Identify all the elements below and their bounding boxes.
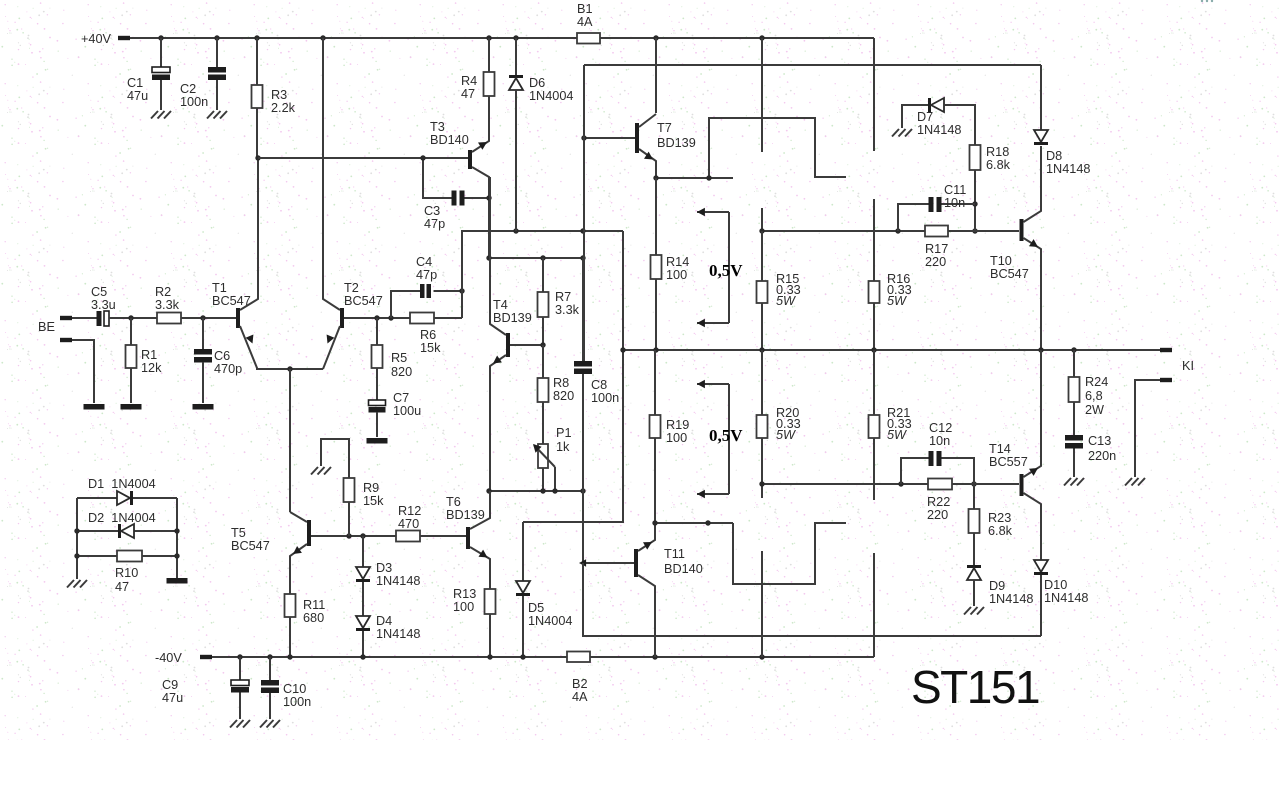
terminal KI return	[1160, 378, 1172, 382]
resistor R20	[757, 415, 768, 438]
svg-text:0,5V: 0,5V	[709, 426, 743, 445]
wire T10 base lead	[948, 230, 1019, 232]
wire R9 bottom lead	[348, 502, 350, 536]
measure arrow upper bottom	[697, 322, 729, 324]
wire x762 to bias bus	[761, 208, 763, 231]
transistor T2 base bar	[340, 308, 344, 328]
wire D7 left hook	[902, 105, 929, 128]
wire C1 top lead	[160, 38, 162, 67]
capacitor C13	[1065, 435, 1083, 441]
svg-text:R9: R9	[363, 481, 379, 495]
wire T1 collector	[240, 158, 258, 310]
resistor R14	[651, 255, 662, 279]
svg-text:BD139: BD139	[493, 311, 532, 325]
wire R2 to T1 base	[181, 317, 236, 319]
wire T1 emitter	[240, 326, 323, 369]
wire R20 top lead	[761, 350, 763, 415]
wire left vertical D1D2R10	[76, 498, 78, 579]
wire x623 vertical to output	[523, 231, 623, 522]
arrow T14 emitter	[1029, 468, 1038, 476]
svg-text:C10: C10	[283, 682, 306, 696]
wire C12 right lead	[942, 458, 975, 484]
wire x762 lower tail	[761, 551, 763, 657]
wire C5 to R2	[109, 317, 157, 319]
wire VAS top rail	[489, 257, 583, 259]
wire T11 base line	[586, 562, 634, 564]
transistor T4 base bar	[506, 333, 510, 357]
svg-text:1N4148: 1N4148	[1046, 162, 1090, 176]
svg-text:D10: D10	[1044, 578, 1067, 592]
resistor R17	[925, 226, 948, 237]
svg-text:5W: 5W	[887, 294, 907, 308]
wire x762 from +rail	[761, 38, 763, 152]
wire T5 emitter	[290, 544, 307, 594]
wire T5 collector	[290, 512, 307, 522]
wire x874 from +rail	[873, 38, 875, 151]
svg-text:1N4148: 1N4148	[989, 592, 1033, 606]
wire inner top rail	[584, 64, 1041, 66]
wire R8 to P1	[542, 402, 544, 444]
wire -40V rail left of fuse B2	[212, 656, 567, 658]
wire x583 lower part	[582, 374, 584, 563]
svg-text:220: 220	[925, 255, 946, 269]
svg-text:1N4148: 1N4148	[917, 123, 961, 137]
junction dots D1D2R10	[74, 528, 79, 533]
wire T3 base line	[258, 157, 468, 159]
svg-text:R1: R1	[141, 348, 157, 362]
svg-text:+40V: +40V	[81, 32, 112, 46]
wire R15 top lead	[761, 231, 763, 281]
capacitor C6	[194, 349, 212, 355]
junction dots T2 base node	[374, 315, 379, 320]
svg-text:T2: T2	[344, 281, 359, 295]
wire C6 top lead	[202, 318, 204, 349]
wire D8 top lead	[1040, 65, 1042, 130]
wire D3 top lead	[362, 536, 364, 567]
svg-text:R12: R12	[398, 504, 421, 518]
svg-text:10n: 10n	[929, 434, 950, 448]
svg-text:R17: R17	[925, 242, 948, 256]
svg-text:10n: 10n	[944, 196, 965, 210]
ground below C1	[151, 111, 158, 119]
wire T6 collector	[470, 491, 490, 529]
wire C2 top lead	[216, 38, 218, 67]
svg-text:BD139: BD139	[657, 136, 696, 150]
transistor T5 base bar	[307, 520, 311, 546]
wire R3 top lead	[256, 38, 258, 85]
svg-text:T4: T4	[493, 298, 508, 312]
svg-text:2W: 2W	[1085, 403, 1104, 417]
svg-text:100: 100	[453, 600, 474, 614]
wire R24 top lead	[1073, 350, 1075, 377]
svg-text:P1: P1	[556, 426, 572, 440]
wire T2 base node	[344, 317, 410, 319]
arrow T5 emitter	[293, 546, 302, 554]
wire R24 to C13	[1073, 402, 1075, 435]
resistor R1	[126, 345, 137, 368]
svg-text:R5: R5	[391, 351, 407, 365]
arrow T1 emitter	[246, 335, 254, 344]
svg-text:6.8k: 6.8k	[986, 158, 1011, 172]
svg-text:R3: R3	[271, 88, 287, 102]
resistor R13	[485, 589, 496, 614]
svg-text:1N4148: 1N4148	[376, 627, 420, 641]
svg-text:47p: 47p	[416, 268, 437, 282]
wire D6 bottom lead	[515, 90, 517, 231]
resistor R24	[1069, 377, 1080, 402]
wire C8 top lead	[582, 258, 584, 361]
resistor R18	[970, 145, 981, 170]
svg-text:-40V: -40V	[155, 651, 182, 665]
svg-text:T14: T14	[989, 442, 1011, 456]
wire diff tail to T5 collector	[289, 369, 291, 512]
svg-text:ST151: ST151	[911, 661, 1039, 713]
resistor R4	[484, 72, 495, 96]
wire R6 right to feedback riser	[434, 317, 462, 319]
wire D7 to R18	[944, 105, 975, 145]
terminal -40V	[200, 655, 212, 659]
wire C10 bottom lead	[269, 693, 271, 719]
ground below C9	[230, 720, 237, 728]
svg-text:5W: 5W	[887, 428, 907, 442]
arrow T6 emitter	[479, 550, 488, 558]
wire C6 bottom lead	[202, 362, 204, 403]
wire upper bias bus y231	[762, 230, 1019, 232]
capacitor C9 (electrolytic)	[231, 680, 249, 686]
transistor T14 base bar	[1020, 474, 1024, 496]
wire R16 bottom lead	[873, 303, 875, 350]
wire upper staircase bus	[709, 118, 846, 178]
svg-text:680: 680	[303, 611, 324, 625]
junction dots VAS bottom rail	[486, 488, 491, 493]
svg-text:R22: R22	[927, 495, 950, 509]
svg-text:R18: R18	[986, 145, 1009, 159]
wire T7 base bus vertical x583	[583, 65, 585, 361]
svg-text:470: 470	[398, 517, 419, 531]
wire R23 to D9	[973, 533, 975, 565]
wire P1 wiper lead	[554, 467, 556, 491]
wire R21 top lead	[873, 350, 875, 415]
svg-text:R19: R19	[666, 418, 689, 432]
resistor R21	[869, 415, 880, 438]
svg-text:D5: D5	[528, 601, 544, 615]
svg-text:D7: D7	[917, 110, 933, 124]
svg-text:D8: D8	[1046, 149, 1062, 163]
junction dots output rail	[620, 347, 625, 352]
wire R21 bottom lead	[873, 438, 875, 500]
wire D2 mid side	[77, 530, 177, 532]
wire R8 top lead	[542, 345, 544, 378]
svg-text:47u: 47u	[127, 89, 148, 103]
resistor R8	[538, 378, 549, 402]
wire C10 top lead	[269, 657, 271, 680]
svg-text:BC557: BC557	[989, 455, 1028, 469]
svg-text:BD140: BD140	[664, 562, 703, 576]
wire T3 collector	[472, 167, 489, 258]
svg-text:47p: 47p	[424, 217, 445, 231]
wire T14 collector	[1024, 493, 1042, 560]
wire T11 emitter	[638, 523, 655, 551]
wire lower staircase bus	[733, 523, 846, 584]
fuse B2	[567, 652, 590, 663]
wire T2 collector	[323, 38, 340, 310]
svg-text:T5: T5	[231, 526, 246, 540]
resistor R7	[538, 292, 549, 317]
svg-text:B2: B2	[572, 677, 588, 691]
svg-text:D1 1N4004: D1 1N4004	[88, 477, 156, 491]
wire T7 base line	[584, 137, 635, 139]
terminal BE signal	[60, 316, 72, 320]
svg-text:BC547: BC547	[231, 539, 270, 553]
diode D1 1N4004	[117, 491, 130, 505]
ground below KI return	[1125, 478, 1132, 486]
wire T14 emitter	[1024, 350, 1042, 477]
wire D5 to -40V rail	[522, 596, 524, 657]
svg-text:R14: R14	[666, 255, 689, 269]
wire D4 bottom lead	[362, 631, 364, 657]
svg-text:5W: 5W	[776, 428, 796, 442]
wire P1 bottom lead	[542, 468, 544, 491]
svg-text:C13: C13	[1088, 434, 1111, 448]
capacitor C1 (electrolytic)	[152, 67, 170, 73]
potentiometer P1 wiper arrow	[534, 445, 555, 467]
junction dot T7 emitter node	[653, 175, 658, 180]
wire T10 collector	[1024, 146, 1042, 222]
svg-text:100n: 100n	[180, 95, 208, 109]
svg-text:1N4004: 1N4004	[528, 614, 572, 628]
junction dots T5 base	[346, 533, 351, 538]
transistor T11 base bar	[634, 549, 638, 577]
wire C11 right lead	[942, 203, 976, 205]
svg-text:T10: T10	[990, 254, 1012, 268]
junction dot R18/C11	[972, 201, 977, 206]
wire lower bias bus y484	[762, 483, 1019, 485]
resistor R5	[372, 345, 383, 368]
wire R19 bottom lead	[654, 438, 656, 523]
junction dots on +40V rail	[158, 35, 163, 40]
wire C2 bottom lead	[216, 80, 218, 110]
svg-text:C3: C3	[424, 204, 440, 218]
svg-text:C5: C5	[91, 285, 107, 299]
svg-text:T11: T11	[664, 547, 685, 561]
arrow T3 emitter	[478, 142, 487, 150]
wire lower driver bus y636	[583, 563, 1041, 636]
wire D6 top lead	[515, 38, 517, 75]
svg-text:820: 820	[553, 389, 574, 403]
svg-text:1N4004: 1N4004	[529, 89, 573, 103]
svg-text:D2 1N4004: D2 1N4004	[88, 511, 156, 525]
svg-text:100u: 100u	[393, 404, 421, 418]
resistor R6	[410, 313, 434, 324]
ground below C7	[367, 438, 388, 444]
wire C3 left riser	[423, 158, 452, 198]
svg-text:R7: R7	[555, 290, 571, 304]
wire R11 bottom lead	[289, 617, 291, 657]
svg-text:R8: R8	[553, 376, 569, 390]
ground below R1	[121, 404, 142, 410]
svg-text:100: 100	[666, 268, 687, 282]
junction dots -40V rail	[237, 654, 242, 659]
measure arrow lower top	[697, 383, 729, 385]
ground below C6	[193, 404, 214, 410]
capacitor C4	[420, 284, 425, 298]
svg-text:R2: R2	[155, 285, 171, 299]
svg-text:820: 820	[391, 365, 412, 379]
wire T2 emitter	[323, 326, 340, 369]
diode D5 1N4004	[516, 581, 530, 593]
junction dots on y231 bus	[513, 228, 518, 233]
svg-text:BC547: BC547	[344, 294, 383, 308]
transistor T1 base bar	[236, 308, 240, 328]
wire T11 collector	[638, 575, 655, 657]
wire R1 top lead	[130, 318, 132, 345]
svg-text:R11: R11	[303, 598, 325, 612]
svg-text:1N4148: 1N4148	[376, 574, 420, 588]
wire R16 top riser	[873, 199, 875, 281]
wire T4 emitter	[490, 355, 506, 491]
ground below C13	[1064, 478, 1071, 486]
potentiometer P1 body	[538, 444, 548, 468]
wire input to C5	[72, 317, 97, 319]
wire T6 emitter	[470, 547, 490, 589]
wire R12 to T6 base	[420, 535, 466, 537]
wire +40V rail right of fuse B1	[600, 37, 874, 39]
junction dot C3 riser	[420, 155, 425, 160]
transistor T6 base bar	[466, 527, 470, 549]
wire VAS bottom rail	[489, 490, 583, 492]
svg-text:T3: T3	[430, 120, 445, 134]
svg-text:C8: C8	[591, 378, 607, 392]
diode D8 1N4148	[1034, 130, 1048, 142]
capacitor C2	[208, 67, 226, 73]
wire right vertical D1D2R10	[176, 498, 178, 578]
wire R4 top lead	[488, 38, 490, 72]
resistor R16	[869, 281, 880, 303]
wire R3 bottom lead	[256, 108, 258, 158]
diode D6 1N4004	[509, 75, 523, 78]
resistor R15	[757, 281, 768, 303]
svg-text:C7: C7	[393, 391, 409, 405]
wire T4 collector	[490, 177, 506, 335]
resistor R23	[969, 509, 980, 533]
svg-text:47u: 47u	[162, 691, 183, 705]
resistor R2	[157, 313, 181, 324]
ground bar below-right of R10 block	[167, 578, 188, 584]
junction dot T7 base	[581, 135, 586, 140]
wire D10 bottom lead	[1040, 575, 1042, 636]
svg-text:BC547: BC547	[990, 267, 1029, 281]
resistor R19	[650, 415, 661, 438]
transistor T7 base bar	[635, 123, 639, 153]
svg-text:5W: 5W	[776, 294, 796, 308]
wire D5 branch	[522, 522, 524, 581]
arrow T11 emitter	[643, 542, 652, 550]
svg-text:KI: KI	[1182, 359, 1194, 373]
svg-text:BD140: BD140	[430, 133, 469, 147]
capacitor C10	[261, 680, 279, 686]
ground below D7	[892, 129, 899, 137]
wire R5 to C7	[376, 368, 378, 400]
arrow into T11 base node	[579, 559, 586, 567]
svg-text:D9: D9	[989, 579, 1005, 593]
svg-text:R24: R24	[1085, 375, 1108, 389]
wire R7 bottom lead	[542, 317, 544, 345]
wire R7 top lead	[542, 258, 544, 292]
wire C9 bottom lead	[239, 693, 241, 720]
svg-text:C2: C2	[180, 82, 196, 96]
junction dots upper bias bus	[759, 228, 764, 233]
wire C13 bottom lead	[1073, 449, 1075, 478]
transistor T3 base bar	[468, 150, 472, 169]
ground below C2	[207, 111, 214, 119]
svg-text:12k: 12k	[141, 361, 162, 375]
arrow T10 emitter	[1029, 239, 1038, 247]
wire R22 to T14 base	[952, 483, 1019, 485]
wire D3 to D4	[362, 582, 364, 616]
wire D1 top side	[77, 497, 177, 499]
wire R10 bottom side	[77, 555, 177, 557]
svg-text:100n: 100n	[591, 391, 619, 405]
svg-text:3.3k: 3.3k	[555, 303, 580, 317]
junction dots lower bias bus	[759, 481, 764, 486]
svg-text:1N4148: 1N4148	[1044, 591, 1088, 605]
wire C3 right lead	[465, 197, 490, 199]
junction dot C4 right	[459, 288, 464, 293]
arrow T2 emitter	[327, 335, 335, 344]
wire T3 emitter	[472, 108, 489, 152]
svg-text:3.3k: 3.3k	[155, 298, 180, 312]
wire riser to y231 bus	[462, 231, 623, 318]
transistor T10 base bar	[1020, 219, 1024, 241]
svg-text:R6: R6	[420, 328, 436, 342]
svg-text:47: 47	[461, 87, 475, 101]
svg-text:D3: D3	[376, 561, 392, 575]
terminal +40V	[118, 36, 130, 40]
wire R4 bottom lead	[488, 96, 490, 108]
wire R15 bottom lead	[761, 303, 763, 350]
svg-text:T1: T1	[212, 281, 227, 295]
wire R1 bottom lead	[130, 368, 132, 403]
wire KI return to ground	[1135, 380, 1160, 477]
wire T7 emitter	[639, 149, 656, 178]
svg-text:C4: C4	[416, 255, 432, 269]
svg-text:C1: C1	[127, 76, 143, 90]
node R3/T3 base junction	[255, 155, 260, 160]
svg-text:C12: C12	[929, 421, 952, 435]
wire R13 bottom lead	[489, 614, 491, 657]
junction dot C3 to collector	[486, 195, 491, 200]
wire C4 right lead	[434, 290, 463, 292]
wire C9 top lead	[239, 657, 241, 680]
svg-text:220n: 220n	[1088, 449, 1116, 463]
wire R5 top lead	[376, 318, 378, 345]
svg-text:C11: C11	[944, 183, 966, 197]
junction dot T4 base	[540, 342, 545, 347]
wire C12 left hook	[901, 458, 929, 484]
wire R14 top lead	[655, 178, 657, 255]
diode D3 1N4148	[356, 567, 370, 579]
terminal BE return	[60, 338, 72, 342]
ground below D9	[964, 607, 971, 615]
wire +40V rail left of fuse B1	[130, 37, 577, 39]
diode D7 1N4148	[928, 98, 931, 112]
svg-text:C6: C6	[214, 349, 230, 363]
junction dot diff pair tail	[287, 366, 292, 371]
ground below-left of R10 block	[67, 580, 74, 588]
capacitor C12	[929, 451, 934, 466]
wire BE return to ground	[72, 340, 94, 403]
svg-text:1k: 1k	[556, 440, 570, 454]
